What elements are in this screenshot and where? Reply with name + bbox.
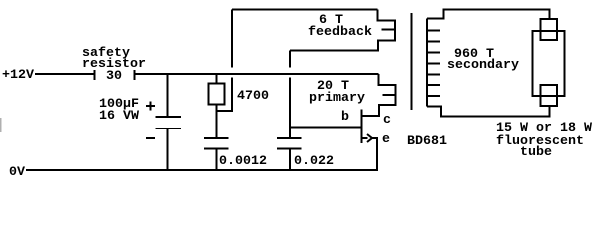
svg-text:4700: 4700 (237, 88, 269, 103)
svg-text:0.022: 0.022 (294, 153, 334, 168)
wire C1 bottom lead (167, 128, 169, 170)
svg-text:secondary: secondary (447, 57, 519, 72)
svg-text:BD681: BD681 (407, 133, 447, 148)
transistor Q1 emitter arrow (367, 134, 372, 142)
capacitor C2 bottom plate (204, 148, 229, 150)
resistor R1 right tick (134, 70, 136, 80)
capacitor C1 bottom plate (156, 128, 182, 130)
capacitor C1 minus sign (146, 137, 155, 139)
resistor R2 4700 body (209, 84, 225, 105)
fluorescent tube body (533, 31, 565, 96)
fluorescent tube top filament (541, 19, 558, 40)
svg-text:primary: primary (309, 90, 365, 105)
transformer T1 core (411, 13, 413, 110)
wire 4700 top stub (216, 74, 218, 84)
wire secondary bottom to tube (427, 106, 550, 117)
svg-text:c: c (383, 112, 391, 127)
wire 0V rail (26, 169, 378, 171)
transistor Q1 emitter dash (362, 137, 368, 139)
transformer T1 feedback winding coil (290, 10, 395, 51)
wire feedback winding left leg upper (231, 10, 233, 68)
svg-text:e: e (382, 131, 390, 146)
wire C2 bottom lead (216, 149, 218, 171)
transformer T1 primary winding coil tick (383, 94, 396, 96)
transformer T1 secondary winding left leg (426, 19, 428, 107)
wire base wire (290, 127, 361, 129)
wire +12V rail left segment (35, 73, 94, 75)
svg-text:0V: 0V (9, 164, 25, 179)
left edge scan artifact (0, 118, 2, 132)
svg-text:tube: tube (520, 144, 552, 159)
wire C1 top lead (167, 74, 169, 117)
wire C3 bottom lead (289, 149, 291, 171)
resistor R1 left tick (94, 70, 96, 80)
transformer T1 primary winding coil (362, 74, 396, 116)
svg-text:feedback: feedback (308, 24, 372, 39)
wire jog from node to feedback drop (217, 78, 233, 112)
svg-text:16 VW: 16 VW (99, 108, 139, 123)
transistor Q1 base bar (361, 110, 363, 144)
wire feedback to base drop lower (289, 78, 291, 139)
capacitor C1 plus sign (146, 102, 155, 111)
wire feedback to base drop upper (289, 51, 291, 68)
wire secondary top to tube (427, 10, 550, 20)
svg-text:b: b (341, 109, 349, 124)
capacitor C3 top plate (277, 137, 302, 139)
svg-text:resistor: resistor (82, 56, 146, 71)
transformer T1 feedback winding coil tick (382, 29, 396, 31)
svg-text:+12V: +12V (2, 67, 34, 82)
wire emitter corner to ground (373, 138, 378, 170)
capacitor C3 bottom plate (277, 148, 302, 150)
transformer T1 secondary teeth (427, 31, 440, 97)
transformer T1 feedback winding top edge (232, 9, 378, 11)
wire R2 bottom lead to C2 (216, 105, 218, 139)
wire +12V rail right segment (136, 73, 379, 75)
svg-text:0.0012: 0.0012 (219, 153, 267, 168)
fluorescent tube bottom filament (541, 85, 558, 106)
capacitor C2 top plate (204, 137, 229, 139)
capacitor C1 top plate (156, 116, 182, 118)
